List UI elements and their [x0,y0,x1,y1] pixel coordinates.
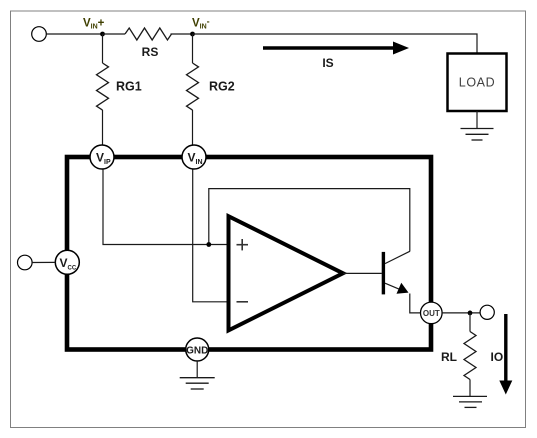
pin VCC [55,250,79,274]
transistor Q1 emitter [385,283,404,291]
feedback wire [209,189,410,252]
VCC terminal [18,255,33,270]
arrow IS [263,46,395,49]
wire node VIN- to load corner [193,34,478,54]
wire RS to node VIN- [171,33,193,35]
transistor Q1 collector [385,251,410,263]
node VIN- junction dot [190,32,195,37]
transistor Q1 base bar [382,252,385,295]
pin VIP [90,145,114,169]
wire terminal to node VIN+ [46,33,102,35]
input terminal (top-left) [32,27,47,42]
wire op-amp output to base [343,272,382,274]
pin GND [186,338,209,361]
output terminal [480,305,494,319]
wire node to RS [103,33,126,35]
resistor RS [125,28,171,40]
svg-text:RL: RL [441,350,457,364]
svg-text:OUT: OUT [423,309,440,318]
ground (below LOAD) [476,111,478,129]
svg-text:IS: IS [322,56,333,70]
svg-text:RG1: RG1 [116,80,142,94]
node RL junction dot [468,311,473,316]
arrow IO [504,314,507,382]
resistor RG2 [192,34,194,63]
ground (below GND pin) [196,361,198,378]
svg-text:RG2: RG2 [209,80,235,94]
wire OUT to output terminal [442,312,480,314]
resistor RL [469,313,471,332]
wire VCC terminal to pin [32,261,55,263]
amplifier boundary box [67,157,431,350]
node VIN+ junction dot [100,32,105,37]
svg-text:RS: RS [142,45,159,59]
svg-text:GND: GND [186,346,208,357]
node feedback junction dot [206,242,211,247]
pin VIN [182,145,206,169]
pin OUT [421,302,443,324]
LOAD box [448,54,507,112]
ground (below RL) [453,395,487,397]
wire emitter to OUT [410,294,421,313]
op-amp U1 [229,216,344,330]
wire VIN to op-amp - input [193,169,229,302]
resistor RG1 [102,34,104,63]
svg-text:IO: IO [491,350,504,364]
wire VIP to op-amp + input [103,169,229,245]
op-amp - symbol [237,301,249,303]
op-amp + symbol [237,244,249,246]
svg-text:LOAD: LOAD [459,76,495,90]
